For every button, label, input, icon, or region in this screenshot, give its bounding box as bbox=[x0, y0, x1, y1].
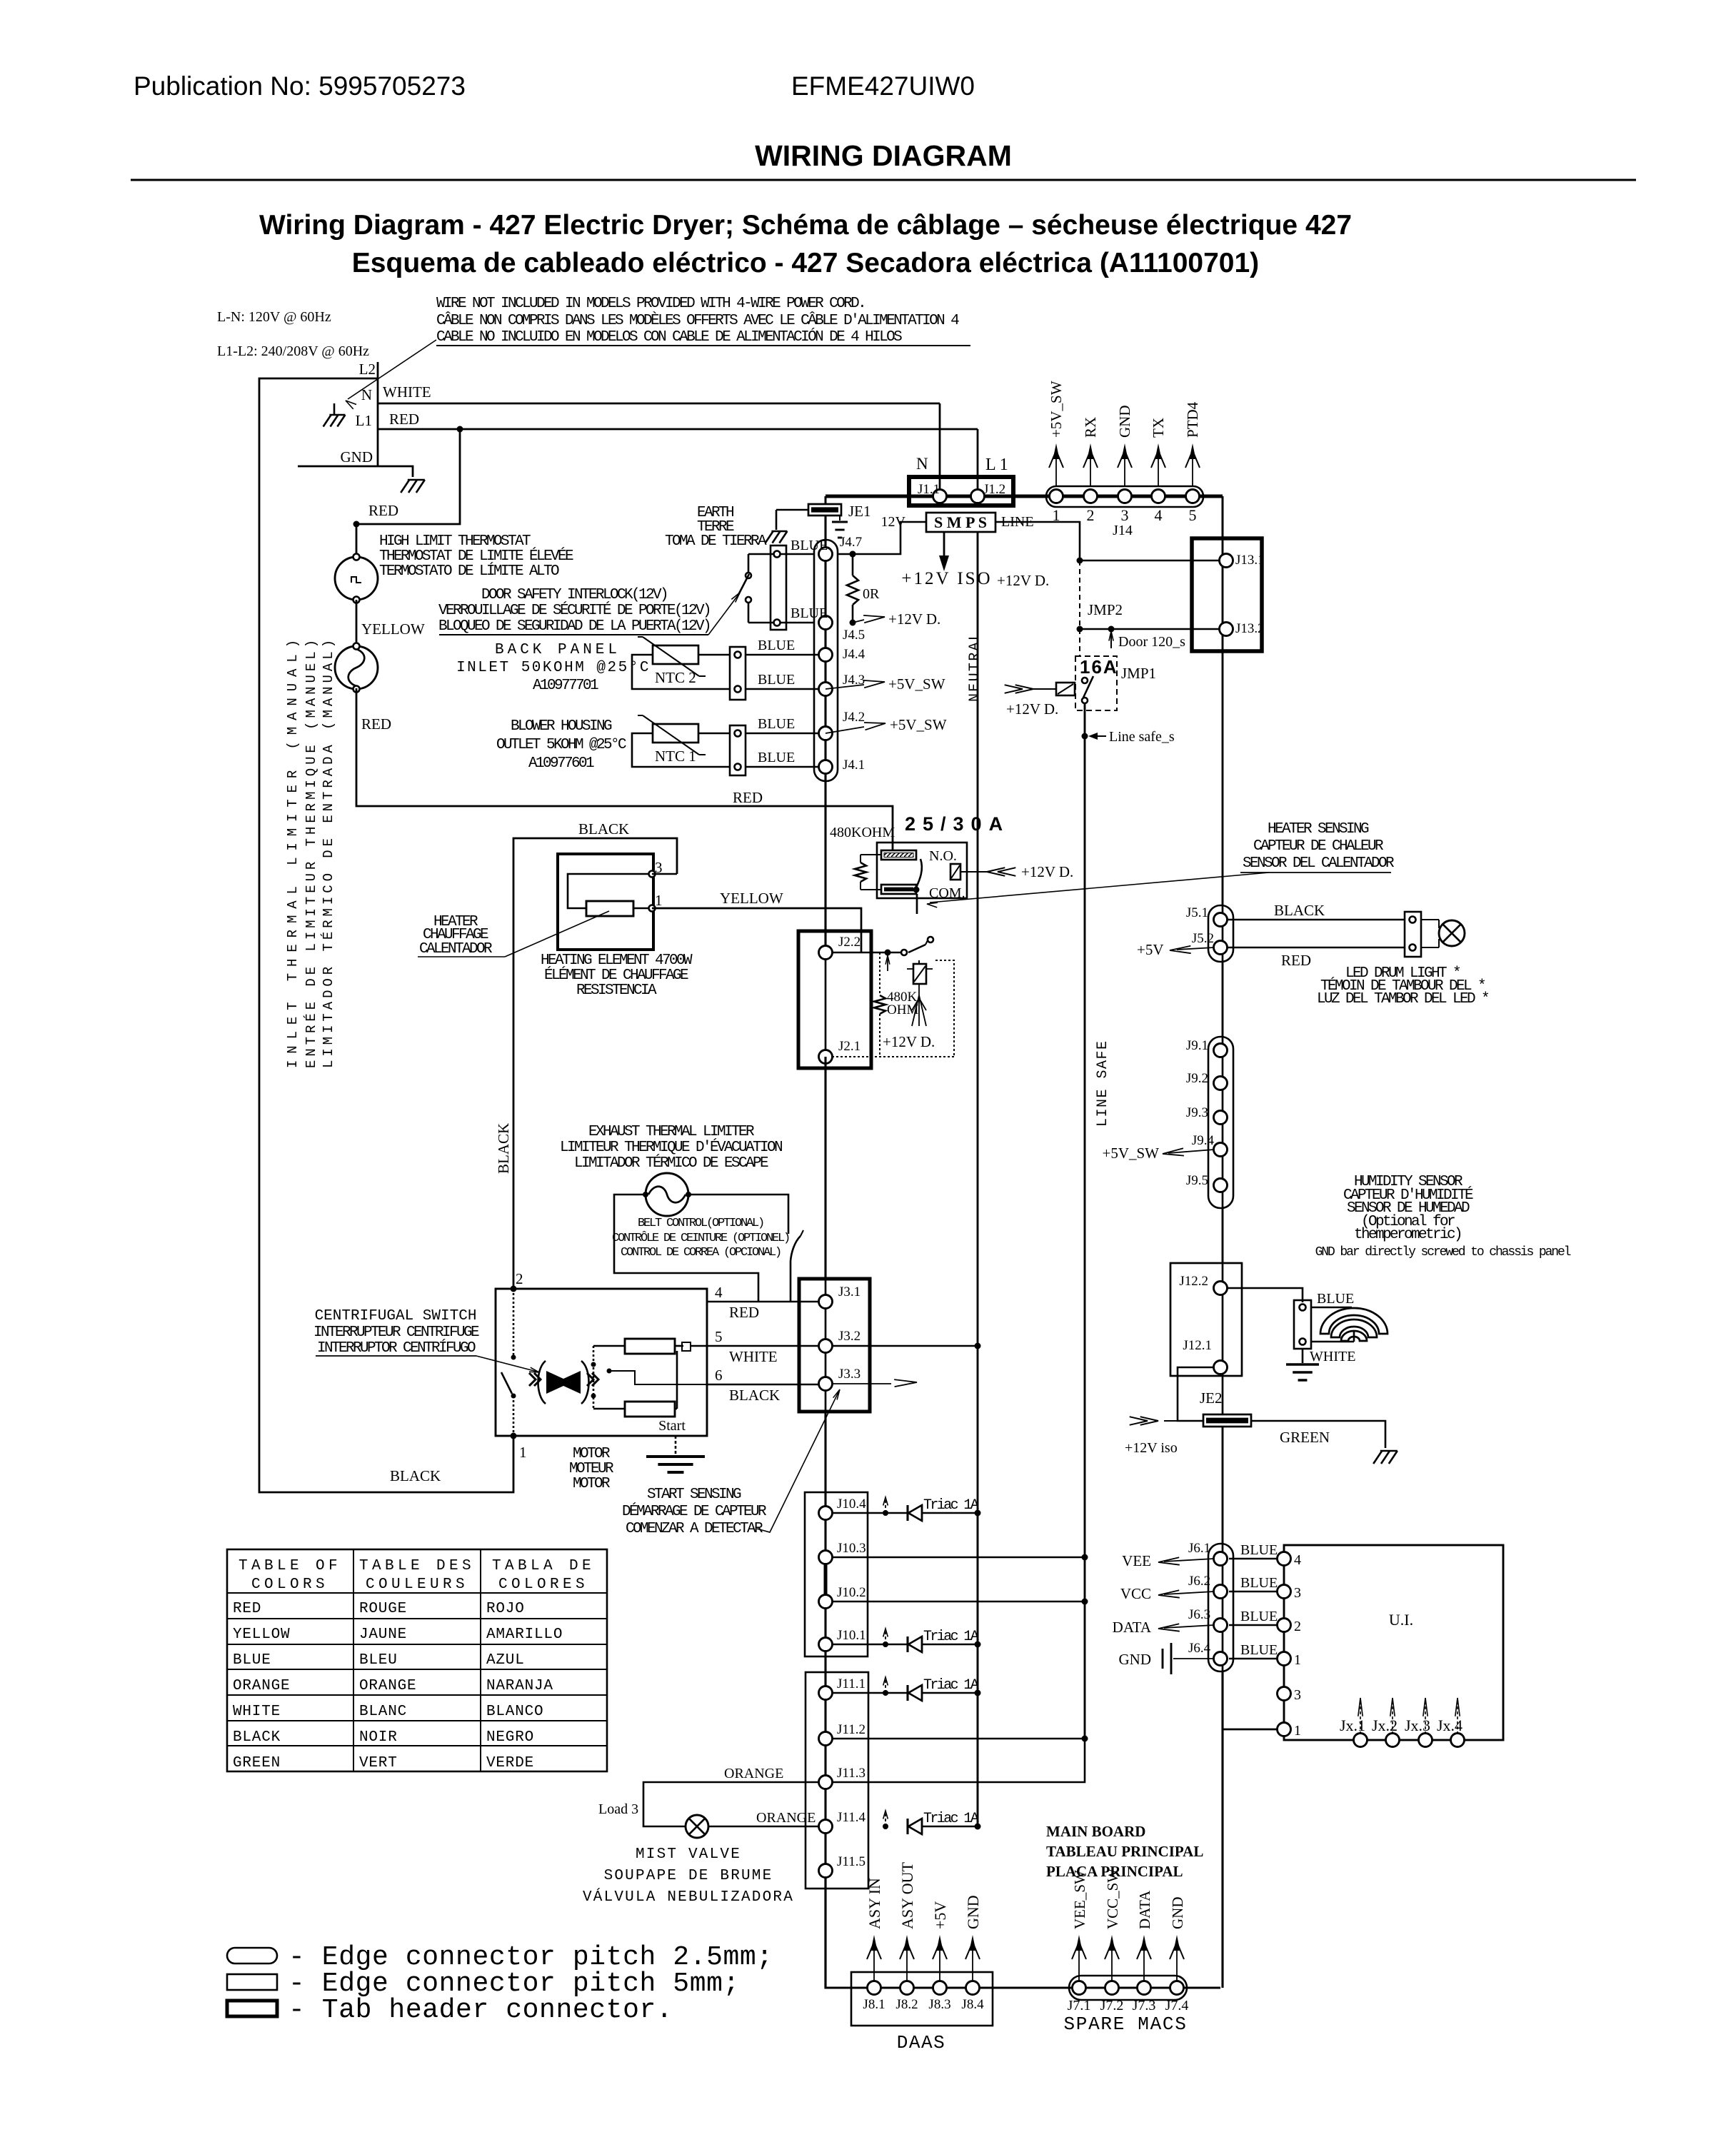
pin J14.3 bbox=[1118, 490, 1132, 503]
svg-text:+5V_SW: +5V_SW bbox=[1102, 1145, 1159, 1162]
pin J7.3 bbox=[1138, 1981, 1151, 1995]
centrifugal actuator bbox=[546, 1371, 581, 1394]
svg-text:J7.4: J7.4 bbox=[1165, 1998, 1189, 2013]
svg-text:ASY OUT: ASY OUT bbox=[898, 1862, 916, 1929]
net arrow +5V_SW J4.3 bbox=[826, 685, 864, 689]
wire L2 bbox=[259, 378, 513, 1492]
UI pin 1 bbox=[1278, 1652, 1291, 1666]
svg-text:0R: 0R bbox=[863, 586, 880, 602]
svg-text:J6.3: J6.3 bbox=[1188, 1607, 1210, 1622]
pin J6.1 bbox=[1214, 1552, 1228, 1566]
arrow ASY OUT DAAS bbox=[906, 1939, 908, 1981]
svg-text:NOIR: NOIR bbox=[359, 1729, 398, 1746]
svg-text:SENSOR DEL CALENTADOR: SENSOR DEL CALENTADOR bbox=[1243, 855, 1395, 872]
svg-text:J8.4: J8.4 bbox=[961, 1997, 984, 2012]
triac J11.4 bbox=[883, 1824, 888, 1829]
wire BLUE J6.1 bbox=[1229, 1558, 1278, 1560]
heating element box bbox=[558, 854, 653, 950]
wire BLACK heating element bbox=[513, 838, 677, 1289]
svg-text:VCC_SW: VCC_SW bbox=[1104, 1869, 1121, 1929]
svg-text:+5V_SW: +5V_SW bbox=[890, 716, 947, 733]
svg-text:4: 4 bbox=[1155, 506, 1163, 524]
pin J3.3 bbox=[819, 1377, 833, 1391]
bus to UI pin1 bbox=[1221, 1671, 1223, 1988]
motor winding left wire bbox=[593, 1345, 625, 1347]
humidity sensor arcs bbox=[1320, 1308, 1388, 1334]
arrow TX J14 bbox=[1158, 447, 1159, 486]
svg-text:A10977701: A10977701 bbox=[533, 678, 598, 694]
svg-text:ORANGE: ORANGE bbox=[359, 1678, 416, 1694]
svg-text:BLUE: BLUE bbox=[1240, 1609, 1278, 1624]
earth ground JE1 bbox=[839, 516, 841, 521]
pin J4.4 bbox=[819, 648, 833, 662]
svg-text:4: 4 bbox=[715, 1284, 723, 1301]
svg-text:DATA: DATA bbox=[1136, 1890, 1153, 1929]
svg-text:Publication No: 5995705273: Publication No: 5995705273 bbox=[134, 71, 466, 101]
net arrow VEE bbox=[1164, 1559, 1214, 1562]
svg-text:EXHAUST THERMAL LIMITER: EXHAUST THERMAL LIMITER bbox=[588, 1124, 755, 1140]
inlet thermal limiter bbox=[335, 646, 378, 689]
wire yellow segment bbox=[356, 600, 358, 646]
wire L1 drop to thermostat bbox=[356, 429, 460, 557]
bus right main bbox=[1222, 651, 1224, 905]
pin J13.1 bbox=[1220, 554, 1233, 568]
connector J4 outline bbox=[814, 540, 838, 781]
svg-text:L-N: 120V @ 60Hz: L-N: 120V @ 60Hz bbox=[217, 309, 331, 325]
arrow RX J14 bbox=[1090, 447, 1091, 486]
connector J9 outline bbox=[1208, 1037, 1233, 1208]
spark gap J2 bbox=[912, 984, 926, 1026]
svg-text:N: N bbox=[361, 386, 372, 403]
svg-text:YELLOW: YELLOW bbox=[233, 1626, 290, 1643]
svg-text:BLACK: BLACK bbox=[390, 1467, 441, 1484]
svg-text:BLACK: BLACK bbox=[233, 1729, 281, 1746]
svg-text:OUTLET 5KOHM @25°C: OUTLET 5KOHM @25°C bbox=[496, 737, 626, 753]
mist valve bbox=[686, 1815, 708, 1838]
UI box bbox=[1284, 1545, 1503, 1740]
pin J10.3 bbox=[819, 1551, 833, 1564]
svg-text:GND: GND bbox=[1119, 1651, 1152, 1668]
junction L1 bbox=[457, 426, 463, 433]
connector J2 block bbox=[798, 931, 871, 1068]
svg-text:J13.1: J13.1 bbox=[1235, 553, 1265, 568]
svg-text:CALENTADOR: CALENTADOR bbox=[419, 941, 493, 957]
wire J12.2 to sensor bbox=[1227, 1288, 1303, 1302]
svg-text:J4.4: J4.4 bbox=[843, 647, 866, 662]
wire NTC1 loop bbox=[632, 733, 730, 767]
heater leader bbox=[505, 911, 609, 957]
svg-text:BLANC: BLANC bbox=[359, 1704, 407, 1720]
svg-text:ÉLÉMENT DE CHAUFFAGE: ÉLÉMENT DE CHAUFFAGE bbox=[544, 967, 688, 984]
triac J10.4 bbox=[883, 1510, 888, 1516]
svg-text:+12V ISO: +12V ISO bbox=[901, 569, 992, 588]
svg-text:COM.: COM. bbox=[929, 885, 965, 901]
legend edge connector 5mm bbox=[227, 1974, 277, 1990]
svg-text:INLET 50KOHM @25°C: INLET 50KOHM @25°C bbox=[456, 660, 651, 676]
door interlock leader bbox=[708, 595, 738, 635]
svg-text:J7.3: J7.3 bbox=[1133, 1998, 1156, 2013]
svg-text:VEE_SW: VEE_SW bbox=[1071, 1870, 1088, 1929]
pin J9.5 bbox=[1214, 1179, 1228, 1192]
svg-text:Load 3: Load 3 bbox=[598, 1801, 638, 1817]
svg-text:Jx.2: Jx.2 bbox=[1372, 1716, 1398, 1734]
arrow +12V ISO bbox=[943, 532, 945, 564]
connector SPARE MACS outline bbox=[1069, 1976, 1187, 2000]
arrow +12V iso bbox=[1164, 1420, 1203, 1422]
svg-text:HIGH LIMIT THERMOSTAT: HIGH LIMIT THERMOSTAT bbox=[379, 533, 531, 550]
pin J8.4 bbox=[966, 1981, 980, 1995]
pin J2.1 bbox=[819, 1050, 833, 1064]
motor start sense tap bbox=[607, 1369, 612, 1374]
UI pin 2 bbox=[1278, 1619, 1291, 1632]
arrow +5V DAAS bbox=[939, 1939, 940, 1981]
svg-text:TOMA DE TIERRA: TOMA DE TIERRA bbox=[665, 533, 767, 550]
svg-text:TABLE OF: TABLE OF bbox=[239, 1558, 341, 1574]
pin J7.1 bbox=[1073, 1981, 1086, 1995]
svg-text:BLUE: BLUE bbox=[758, 672, 795, 688]
ground GND J6.4 bbox=[1173, 1658, 1214, 1659]
svg-text:WHITE: WHITE bbox=[383, 383, 431, 401]
svg-text:SOUPAPE DE BRUME: SOUPAPE DE BRUME bbox=[604, 1868, 773, 1884]
pin J1.1 bbox=[933, 490, 947, 503]
svg-text:J5.2: J5.2 bbox=[1192, 931, 1214, 946]
svg-text:L2: L2 bbox=[359, 361, 376, 378]
svg-text:BLACK: BLACK bbox=[1274, 902, 1325, 919]
pin J1.2 bbox=[971, 490, 985, 503]
centrifugal leader bbox=[476, 1356, 537, 1372]
pin J6.4 bbox=[1214, 1652, 1228, 1666]
svg-text:J10.3: J10.3 bbox=[837, 1541, 866, 1556]
wire J10.1 triac bbox=[832, 1644, 908, 1646]
svg-text:BLUE: BLUE bbox=[758, 716, 795, 732]
connector door interlock bbox=[771, 545, 786, 630]
svg-text:DÉMARRAGE DE CAPTEUR: DÉMARRAGE DE CAPTEUR bbox=[622, 1503, 767, 1520]
relay coil 16A bbox=[1056, 683, 1075, 695]
connector drum light bbox=[1405, 912, 1421, 957]
svg-text:J4.2: J4.2 bbox=[843, 710, 865, 725]
svg-text:Triac 1A: Triac 1A bbox=[923, 1811, 979, 1827]
bus right drop to J13 bbox=[1222, 496, 1224, 538]
svg-text:3: 3 bbox=[1294, 1687, 1301, 1703]
svg-text:JMP1: JMP1 bbox=[1121, 665, 1156, 682]
pin J2.2 bbox=[819, 946, 833, 960]
svg-text:- Tab header connector.: - Tab header connector. bbox=[289, 1995, 673, 2026]
svg-text:BLUE: BLUE bbox=[1317, 1291, 1354, 1307]
svg-text:GREEN: GREEN bbox=[233, 1755, 281, 1771]
svg-text:ROJO: ROJO bbox=[486, 1601, 525, 1617]
svg-text:1: 1 bbox=[1294, 1723, 1301, 1739]
pin J8.3 bbox=[933, 1981, 947, 1995]
svg-text:J2.1: J2.1 bbox=[838, 1039, 861, 1054]
svg-text:Jx.1: Jx.1 bbox=[1340, 1716, 1365, 1734]
svg-text:BELT CONTROL(OPTIONAL): BELT CONTROL(OPTIONAL) bbox=[638, 1217, 763, 1230]
motor winding right wire bbox=[675, 1345, 683, 1347]
pin J4.3 bbox=[819, 683, 833, 696]
svg-text:VERDE: VERDE bbox=[486, 1755, 534, 1771]
svg-text:ROUGE: ROUGE bbox=[359, 1601, 407, 1617]
net arrow +5V_SW J9.4 bbox=[1168, 1150, 1214, 1153]
svg-text:LIMITEUR THERMIQUE D'ÉVACUATIO: LIMITEUR THERMIQUE D'ÉVACUATION bbox=[560, 1139, 782, 1156]
svg-text:ASY IN: ASY IN bbox=[866, 1878, 883, 1929]
solenoid J2 bbox=[913, 964, 926, 984]
svg-text:ORANGE: ORANGE bbox=[233, 1678, 290, 1694]
svg-text:BACK PANEL: BACK PANEL bbox=[495, 642, 621, 658]
arrow start sensing J3.3 bbox=[832, 1383, 891, 1384]
svg-text:BLANCO: BLANCO bbox=[486, 1704, 543, 1720]
svg-text:J8.2: J8.2 bbox=[895, 1997, 918, 2012]
svg-text:RED: RED bbox=[729, 1304, 759, 1321]
svg-text:J12.1: J12.1 bbox=[1183, 1338, 1212, 1353]
main bus top bbox=[826, 495, 1223, 498]
svg-text:CONTROL DE CORREA (OPCIONAL): CONTROL DE CORREA (OPCIONAL) bbox=[621, 1246, 781, 1259]
bus bold segment J10 bbox=[824, 1557, 828, 1602]
svg-text:TERMOSTATO DE LÍMITE ALTO: TERMOSTATO DE LÍMITE ALTO bbox=[379, 563, 559, 580]
wire GND bbox=[298, 466, 413, 477]
svg-text:AZUL: AZUL bbox=[486, 1652, 525, 1669]
svg-text:MOTOR: MOTOR bbox=[573, 1476, 611, 1492]
svg-text:BLUE: BLUE bbox=[791, 605, 828, 621]
svg-text:Start: Start bbox=[658, 1418, 686, 1434]
svg-text:WIRING DIAGRAM: WIRING DIAGRAM bbox=[755, 139, 1012, 172]
triac output bus bbox=[977, 1513, 979, 1826]
net arrow +5V J5.2 bbox=[1177, 947, 1214, 950]
svg-text:GREEN: GREEN bbox=[1280, 1429, 1330, 1446]
svg-text:WHITE: WHITE bbox=[1310, 1349, 1355, 1364]
svg-text:BLOWER HOUSING: BLOWER HOUSING bbox=[511, 718, 612, 735]
note leader arrow bbox=[348, 340, 436, 399]
connector J11 block bbox=[806, 1672, 868, 1889]
svg-text:BLUE: BLUE bbox=[791, 538, 828, 553]
connector J13 block bbox=[1192, 538, 1262, 651]
pin J3.1 bbox=[819, 1295, 833, 1309]
svg-text:HEATING ELEMENT 4700W: HEATING ELEMENT 4700W bbox=[541, 952, 693, 969]
legend tab header connector bbox=[227, 2001, 277, 2016]
neutral ground stub bbox=[333, 403, 336, 414]
svg-text:HEATER SENSING: HEATER SENSING bbox=[1268, 821, 1369, 838]
relay box 25/30A bbox=[877, 843, 967, 898]
wire J3.2 to neutral bbox=[832, 1345, 978, 1347]
door switch bbox=[748, 554, 750, 572]
pin J11.5 bbox=[819, 1864, 833, 1878]
net arrow +12V D. J4.5 bbox=[853, 620, 864, 623]
svg-text:A10977601: A10977601 bbox=[528, 755, 594, 772]
svg-text:Esquema de cableado eléctrico: Esquema de cableado eléctrico - 427 Seca… bbox=[352, 248, 1259, 278]
pin J6.3 bbox=[1214, 1619, 1228, 1632]
wire WHITE sensor bbox=[1311, 1341, 1354, 1343]
wire J10.2 line safe bbox=[832, 1601, 1085, 1603]
start sensing leader bbox=[757, 1392, 838, 1532]
wire JMP2 dashed bbox=[1079, 560, 1080, 629]
bus main board left bbox=[824, 1057, 826, 1279]
svg-text:480KOHM: 480KOHM bbox=[830, 825, 895, 840]
svg-text:L1: L1 bbox=[356, 412, 372, 429]
svg-text:DAAS: DAAS bbox=[897, 2032, 945, 2053]
svg-text:OHM: OHM bbox=[887, 1002, 918, 1017]
svg-text:RESISTENCIA: RESISTENCIA bbox=[576, 982, 657, 999]
connector J12 block bbox=[1170, 1263, 1242, 1376]
svg-text:RED: RED bbox=[361, 715, 391, 733]
svg-text:Door 120_s: Door 120_s bbox=[1118, 634, 1185, 650]
svg-text:+5V: +5V bbox=[931, 1901, 949, 1929]
svg-text:J4.7: J4.7 bbox=[840, 535, 862, 550]
pin J11.4 bbox=[819, 1820, 833, 1834]
svg-text:BLUE: BLUE bbox=[1240, 1542, 1278, 1558]
wire BLUE J4.5 door bbox=[748, 622, 814, 624]
pin 3 heating element bbox=[649, 871, 656, 878]
svg-text:VÁLVULA NEBULIZADORA: VÁLVULA NEBULIZADORA bbox=[583, 1889, 794, 1906]
svg-text:GND: GND bbox=[1116, 406, 1133, 438]
svg-text:3: 3 bbox=[1121, 506, 1129, 524]
svg-text:CENTRIFUGAL SWITCH: CENTRIFUGAL SWITCH bbox=[315, 1308, 477, 1324]
wire J10.4 triac bbox=[832, 1512, 908, 1514]
svg-text:Wiring Diagram - 427 Electric: Wiring Diagram - 427 Electric Dryer; Sch… bbox=[259, 210, 1352, 241]
arrow DATA SPARE bbox=[1143, 1939, 1145, 1981]
pin J8.1 bbox=[868, 1981, 881, 1995]
LED drum light lamp bbox=[1421, 919, 1439, 920]
svg-text:N.O.: N.O. bbox=[929, 848, 957, 864]
relay blade bbox=[916, 859, 922, 888]
svg-text:GND bar directly screwed to ch: GND bar directly screwed to chassis pane… bbox=[1315, 1245, 1571, 1259]
svg-text:Jx.4: Jx.4 bbox=[1437, 1716, 1462, 1734]
svg-text:2: 2 bbox=[516, 1270, 523, 1287]
relay coil 25/30A bbox=[950, 864, 960, 880]
bus J4 column bbox=[824, 515, 826, 806]
chassis ground neutral bbox=[329, 414, 345, 416]
svg-text:ENTRÉE DE LIMITEUR THERMIQUE (: ENTRÉE DE LIMITEUR THERMIQUE (MANUEL) bbox=[303, 640, 319, 1068]
svg-text:NEUTRAL: NEUTRAL bbox=[967, 630, 983, 702]
svg-text:RED: RED bbox=[389, 411, 419, 428]
svg-text:YELLOW: YELLOW bbox=[361, 620, 425, 638]
svg-text:NEGRO: NEGRO bbox=[486, 1729, 534, 1746]
svg-text:+12V iso: +12V iso bbox=[1125, 1440, 1178, 1456]
wire BLUE J6.3 bbox=[1229, 1624, 1278, 1626]
UI Jx pins bbox=[1354, 1734, 1368, 1747]
wire BLUE sensor bbox=[1311, 1307, 1352, 1309]
pin J9.3 bbox=[1214, 1111, 1228, 1125]
bus JE2 down bbox=[1222, 1376, 1224, 1414]
pin J3.2 bbox=[819, 1339, 833, 1353]
svg-text:2: 2 bbox=[1294, 1619, 1301, 1634]
svg-text:+5V_SW: +5V_SW bbox=[1048, 381, 1065, 438]
net arrow +5V_SW J4.2 bbox=[826, 727, 864, 733]
wire BLUE J4.1 bbox=[746, 766, 826, 768]
svg-text:JE2: JE2 bbox=[1200, 1389, 1223, 1407]
svg-text:J4.1: J4.1 bbox=[843, 758, 865, 773]
svg-text:RED: RED bbox=[233, 1601, 261, 1617]
svg-text:themperometric): themperometric) bbox=[1354, 1227, 1461, 1243]
svg-text:TX: TX bbox=[1150, 418, 1167, 438]
svg-text:BLUE: BLUE bbox=[1240, 1575, 1278, 1591]
svg-text:Jx.3: Jx.3 bbox=[1405, 1716, 1430, 1734]
svg-text:LUZ DEL TAMBOR DEL LED *: LUZ DEL TAMBOR DEL LED * bbox=[1317, 991, 1489, 1007]
connector J1 tab header bbox=[909, 477, 1013, 506]
wire SMPS 12V to J4.7 bbox=[838, 522, 926, 554]
svg-text:N: N bbox=[916, 455, 928, 473]
pin J8.2 bbox=[900, 1981, 914, 1995]
svg-text:+5V: +5V bbox=[1137, 941, 1164, 958]
pin J10.1 bbox=[819, 1638, 833, 1651]
svg-text:4: 4 bbox=[1294, 1552, 1301, 1568]
net arrow VCC bbox=[1164, 1592, 1214, 1594]
pin J7.2 bbox=[1105, 1981, 1119, 1995]
svg-text:5: 5 bbox=[715, 1328, 723, 1345]
arrow +12V D. heater relay bbox=[987, 868, 1005, 876]
svg-text:NTC 1: NTC 1 bbox=[655, 748, 696, 765]
wire J2.1 out bbox=[832, 1056, 954, 1057]
svg-text:VEE: VEE bbox=[1122, 1552, 1151, 1569]
pin J11.3 bbox=[819, 1776, 833, 1789]
svg-text:COMENZAR A DETECTAR: COMENZAR A DETECTAR bbox=[626, 1521, 763, 1537]
svg-text:+12V D.: +12V D. bbox=[1006, 700, 1058, 718]
arrow ASY IN DAAS bbox=[873, 1939, 875, 1981]
pin J10.4 bbox=[819, 1507, 833, 1520]
svg-text:YELLOW: YELLOW bbox=[720, 890, 783, 907]
wire BLUE J4.2 bbox=[746, 733, 826, 735]
svg-text:DOOR SAFETY INTERLOCK(12V): DOOR SAFETY INTERLOCK(12V) bbox=[481, 587, 667, 603]
resistor 480K OHM bbox=[879, 952, 880, 995]
svg-text:J7.1: J7.1 bbox=[1068, 1998, 1091, 2013]
svg-text:J10.2: J10.2 bbox=[837, 1585, 866, 1600]
arrow GND DAAS bbox=[972, 1939, 973, 1981]
resistor 480KOHM bbox=[861, 854, 881, 855]
UI pin 3 bbox=[1278, 1585, 1291, 1599]
wire SMPS LINE bbox=[995, 522, 1080, 560]
tap Line safe_s bbox=[1082, 733, 1088, 740]
wire JMP2 to J13.2 bbox=[1080, 628, 1220, 630]
svg-text:BLACK: BLACK bbox=[495, 1123, 512, 1174]
connector J14 outline bbox=[1046, 486, 1203, 507]
svg-text:RED: RED bbox=[733, 789, 763, 806]
tap arrow J2.2 bbox=[885, 950, 891, 956]
svg-text:J3.2: J3.2 bbox=[838, 1329, 861, 1344]
heating element bar bbox=[586, 901, 633, 916]
arrow VEE_SW SPARE bbox=[1078, 1939, 1080, 1981]
wire earth to JE1 bbox=[776, 509, 808, 511]
svg-text:ORANGE: ORANGE bbox=[724, 1766, 783, 1781]
svg-text:J9.3: J9.3 bbox=[1186, 1105, 1208, 1120]
svg-text:J6.1: J6.1 bbox=[1188, 1541, 1210, 1556]
UI pin 4 bbox=[1278, 1552, 1291, 1566]
svg-text:INTERRUPTOR CENTRÍFUGO: INTERRUPTOR CENTRÍFUGO bbox=[317, 1339, 476, 1357]
tap Door 120_s bbox=[1108, 626, 1115, 633]
pin J11.2 bbox=[819, 1732, 833, 1746]
svg-text:GND: GND bbox=[1169, 1897, 1186, 1930]
power terminal block line bbox=[377, 362, 379, 466]
switch 16A bbox=[1082, 678, 1088, 683]
pin J14.5 bbox=[1186, 490, 1200, 503]
triac J11.1 bbox=[883, 1690, 888, 1696]
resistor 0R bbox=[852, 554, 854, 575]
svg-text:+12V D.: +12V D. bbox=[1021, 863, 1073, 880]
svg-text:J11.3: J11.3 bbox=[837, 1766, 866, 1781]
exhaust thermal limiter circle bbox=[646, 1173, 688, 1216]
svg-text:L 1: L 1 bbox=[985, 456, 1008, 474]
wire L1 red bbox=[378, 428, 978, 431]
svg-text:RX: RX bbox=[1082, 417, 1099, 438]
chassis ground cord bbox=[408, 479, 425, 481]
arrow VCC_SW SPARE bbox=[1111, 1939, 1113, 1981]
wire BLUE J4.4 bbox=[746, 654, 826, 656]
thermistor NTC2 bbox=[653, 645, 698, 664]
svg-text:J2.2: J2.2 bbox=[838, 935, 861, 950]
earth ground sensor bbox=[1302, 1349, 1304, 1363]
wire BLUE J6.2 bbox=[1229, 1591, 1278, 1593]
pin J4.7 bbox=[819, 548, 833, 561]
svg-text:WHITE: WHITE bbox=[729, 1348, 778, 1365]
svg-text:VERT: VERT bbox=[359, 1755, 398, 1771]
pin J4.1 bbox=[819, 760, 833, 774]
svg-text:J5.1: J5.1 bbox=[1186, 905, 1208, 920]
